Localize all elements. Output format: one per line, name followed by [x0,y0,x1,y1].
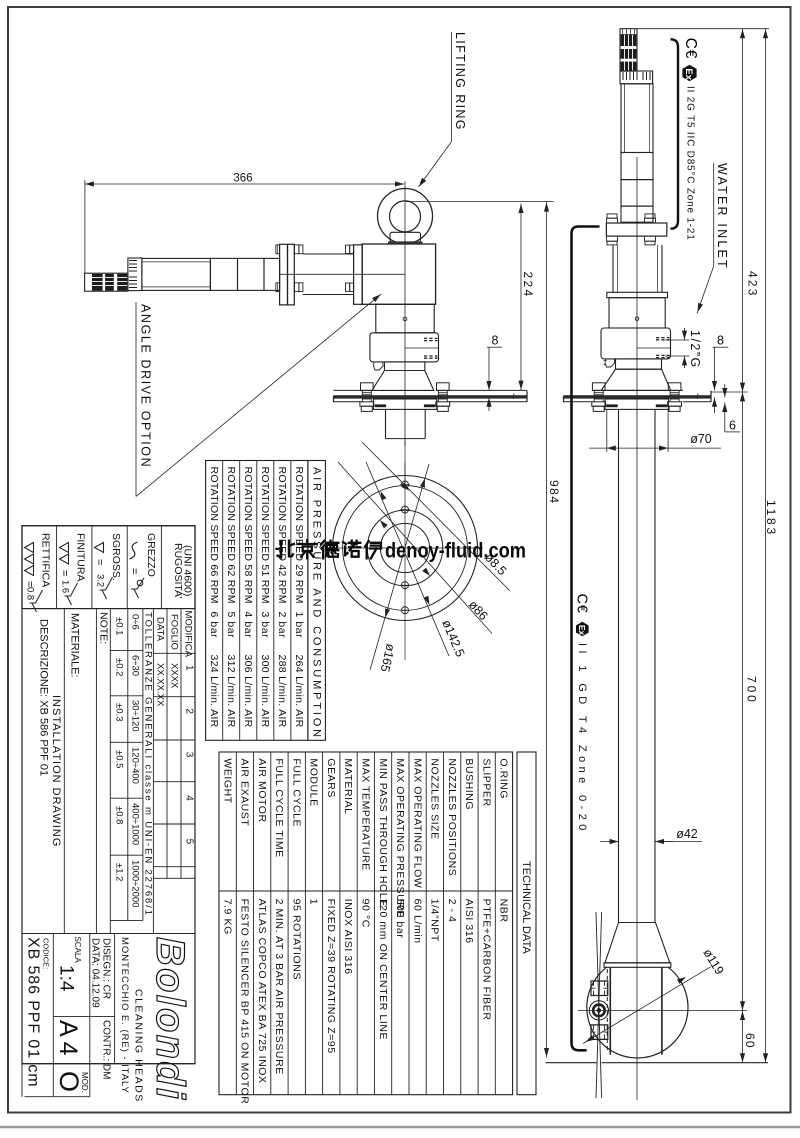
svg-text:XX.XX.XX: XX.XX.XX [155,663,166,707]
bracket atex upper [671,39,679,228]
angle drive tube to head [303,253,354,255]
technical data table grid [219,752,513,1095]
svg-text:AISI 316: AISI 316 [463,899,475,944]
ball horizontal centerline [578,1010,747,1012]
svg-text:ø119: ø119 [700,946,726,977]
svg-text:O: O [54,1071,84,1092]
svg-text:ATLAS COPCO ATEX BA 725 INOX: ATLAS COPCO ATEX BA 725 INOX [256,899,268,1084]
svg-text:±0.2: ±0.2 [114,658,125,676]
svg-text:6÷30: 6÷30 [130,655,141,676]
ball hub walls [609,967,611,1054]
tube coupling [621,180,653,207]
svg-text:FULL CYCLE TIME: FULL CYCLE TIME [273,758,285,857]
dim 8 right [713,346,729,348]
svg-text:ANGLE DRIVE OPTION: ANGLE DRIVE OPTION [139,304,153,468]
angle drive motor body [142,258,211,290]
svg-text:1/2”G: 1/2”G [688,330,702,369]
svg-text:Ex: Ex [577,625,587,636]
svg-text:423: 423 [745,271,759,298]
svg-text:INSTALLATION DRAWING: INSTALLATION DRAWING [50,695,62,847]
svg-text:288 L/min. AIR: 288 L/min. AIR [276,655,288,728]
svg-text:30÷120: 30÷120 [130,700,141,732]
svg-text:1/4”NPT: 1/4”NPT [429,899,441,942]
svg-text:ROTATION SPEED 66 RPM: ROTATION SPEED 66 RPM [208,467,220,604]
tube upper [621,206,653,222]
svg-text:FULL CYCLE: FULL CYCLE [290,758,302,827]
svg-text:SLIPPER: SLIPPER [480,758,492,806]
water inlet pipe [572,227,600,1051]
svg-text:C€: C€ [574,594,590,614]
head gear housing [370,333,439,362]
watermark text [277,541,294,558]
ring neck [390,232,421,242]
svg-text:GREZZO: GREZZO [145,533,157,577]
motor top slotted cap [620,71,653,84]
svg-text:MODULE: MODULE [308,758,320,806]
svg-text:FESTO SILENCER BP 415 ON MOTOR: FESTO SILENCER BP 415 ON MOTOR [239,899,251,1105]
svg-text:1 bar: 1 bar [293,612,305,639]
svg-text:1183: 1183 [764,500,778,537]
svg-text:5 bar: 5 bar [225,612,237,639]
extension from lifting ring to 984 [406,201,554,203]
flange view centerlines [329,547,483,549]
dim o42 [600,841,619,843]
svg-text:4: 4 [183,795,194,801]
lifting ring [378,189,433,244]
svg-text:366: 366 [233,173,252,185]
svg-text:1.6: 1.6 [60,580,71,593]
down tube (O42) [618,409,620,922]
neck [616,359,662,369]
svg-text:±0.1: ±0.1 [114,617,125,635]
dim o119 leader [583,967,711,1044]
nozzle hub cone [605,923,670,963]
svg-text:C€: C€ [682,38,699,59]
svg-text:60: 60 [743,1033,757,1049]
svg-text:264 L/min. AIR: 264 L/min. AIR [293,655,305,728]
svg-text:90 °C: 90 °C [360,899,372,928]
flange bolt holes [402,481,409,488]
svg-text:MODIFICA: MODIFICA [183,611,194,658]
Ex hexagon upper [682,65,696,81]
svg-text:Bolondi: Bolondi [148,937,192,1101]
spray ball [587,967,688,1058]
svg-text:±0.3: ±0.3 [114,703,125,721]
svg-text:2 MIN. AT 3 BAR AIR PRESSURE: 2 MIN. AT 3 BAR AIR PRESSURE [273,899,285,1075]
svg-text:1:4: 1:4 [56,965,77,992]
head adapter plate [354,245,363,304]
lifting ring label [451,32,453,142]
svg-text:DISEGN.: CR: DISEGN.: CR [101,938,112,999]
CE mark lower [574,594,590,614]
adapter bolts [346,245,350,253]
title columns [63,609,65,934]
head collar [373,399,436,409]
svg-text:(UNI 4600): (UNI 4600) [181,545,193,596]
air motor body [621,84,653,153]
flange view outer circle o165 [333,476,478,621]
svg-text:denoy-fluid.com: denoy-fluid.com [385,539,526,563]
gasket dashes on collar [606,404,618,407]
svg-text:2 bar: 2 bar [276,612,288,639]
clamp collar [605,399,668,409]
angle drive slotted cap [128,258,142,291]
svg-text:XB 586 PPF 01 cm: XB 586 PPF 01 cm [25,937,42,1087]
head vertical centerline [404,181,406,446]
svg-text:6: 6 [729,419,736,433]
svg-text:FINITURA: FINITURA [74,533,86,581]
dim 6 right [724,384,726,397]
dim 366 [84,180,86,273]
svg-text:MAX TEMPERATURE: MAX TEMPERATURE [360,758,372,870]
jet axis lines [596,912,602,1098]
svg-text:FOGLIO: FOGLIO [169,614,180,650]
extension line plate right [711,391,748,393]
svg-text:6 bar: 6 bar [208,612,220,639]
angle drive option label [135,302,137,496]
svg-text:700: 700 [744,676,758,705]
gear housing block with water port [601,328,671,359]
svg-text:ø142.5: ø142.5 [439,618,467,659]
logo block columns [52,934,54,1097]
svg-text:306 L/min. AIR: 306 L/min. AIR [242,655,254,728]
clamp bolts at plate [592,383,605,391]
svg-text:NOZZLES SIZE: NOZZLES SIZE [429,758,441,839]
svg-text:1000÷2000: 1000÷2000 [130,860,141,907]
head gearbox [376,304,434,333]
modifica table [166,609,168,879]
svg-text:0.8: 0.8 [25,587,36,600]
head grease nipple [374,362,384,370]
bearing housing [609,298,665,328]
angle drive horizontal centerline [280,273,405,275]
head bell [372,371,434,391]
main assembly vertical centerline [636,157,638,1100]
scan edge line bottom [0,1126,800,1129]
svg-text:A4: A4 [54,1020,82,1061]
bevel head block [362,244,435,304]
svg-text:120÷400: 120÷400 [130,747,141,784]
flange studs [607,214,617,218]
svg-text:ø42: ø42 [676,827,698,841]
leader o86 [338,462,492,634]
svg-text:312 L/min. AIR: 312 L/min. AIR [225,655,237,728]
nozzle top-left [591,981,608,996]
svg-text:5: 5 [183,839,194,845]
svg-text:ROTATION SPEED 58 RPM: ROTATION SPEED 58 RPM [242,467,254,604]
svg-text:224: 224 [521,272,535,299]
svg-text:INOX AISI 316: INOX AISI 316 [342,899,354,975]
svg-text:WATER INLET: WATER INLET [715,163,729,270]
svg-text:NBR: NBR [498,899,510,923]
grease nipple left [605,359,615,367]
svg-text:XXXX: XXXX [169,663,180,689]
svg-text:ø70: ø70 [690,432,712,446]
Ex hexagon lower [576,622,589,637]
title block outer [22,526,195,1064]
svg-text:±0.5: ±0.5 [114,750,125,768]
leader o165 [370,464,429,670]
ground line [546,1062,597,1064]
svg-text:1: 1 [183,665,194,671]
svg-text:ø165: ø165 [378,642,398,673]
svg-text:LIFTING RING: LIFTING RING [453,32,467,131]
svg-text:ø86: ø86 [466,598,491,623]
svg-text:95 ROTATIONS: 95 ROTATIONS [290,899,302,981]
leader o142.5 [366,462,449,656]
flange (upper) [606,223,666,236]
svg-text:CODICE:: CODICE: [42,938,51,969]
svg-text:ROTATION SPEED 29 RPM: ROTATION SPEED 29 RPM [293,467,305,604]
svg-text:2 - 4: 2 - 4 [446,899,458,923]
svg-text:=: = [59,570,71,576]
svg-text:±0.8: ±0.8 [114,806,125,824]
mounting plate (section) [592,389,683,391]
leader o8.5 [362,442,510,591]
svg-text:2: 2 [183,708,194,714]
svg-text:984: 984 [547,480,561,505]
dim chain line 423/700/60 [742,29,744,1063]
svg-text:NOTE:: NOTE: [97,612,109,644]
svg-text:WEIGHT: WEIGHT [221,758,233,803]
head mounting plate [334,389,361,391]
svg-text:324 L/min. AIR: 324 L/min. AIR [208,655,220,728]
svg-text:DESCRIZIONE: XB 586 PPF 01: DESCRIZIONE: XB 586 PPF 01 [38,619,50,776]
extension line motor top [637,28,769,30]
svg-text:MIN PASS THROUGH HOLE: MIN PASS THROUGH HOLE [377,758,389,906]
svg-text:DATA: DATA [155,617,166,642]
svg-text:II 2G T5 IIC D85°C Zone 1-21: II 2G T5 IIC D85°C Zone 1-21 [684,86,695,241]
svg-text:O.RING: O.RING [498,758,510,799]
angle drive silencer [85,273,128,291]
svg-text:8: 8 [492,334,499,348]
svg-text:PTFE+CARBON FIBER: PTFE+CARBON FIBER [480,899,492,1021]
svg-text:RETTIFICA: RETTIFICA [39,533,51,587]
angle drive motor sections [210,258,237,290]
dim 984 [546,202,548,1058]
roughness table [22,526,195,609]
svg-text:120 mm ON CENTER LINE: 120 mm ON CENTER LINE [377,899,389,1041]
CE mark upper [682,38,699,59]
svg-text:CLEANING HEADS: CLEANING HEADS [132,989,144,1103]
svg-text:BUSHING: BUSHING [463,758,475,810]
svg-text:7.9 KG: 7.9 KG [221,899,233,935]
centerline to flange view [404,463,406,483]
svg-text:ROTATION SPEED 42 RPM: ROTATION SPEED 42 RPM [276,467,288,604]
head gasket dashes [375,404,387,407]
svg-text:500 bar: 500 bar [394,899,406,939]
dim 1/2 G [665,339,690,341]
svg-text:CONTR.: DM: CONTR.: DM [101,1020,112,1079]
tube below flange [612,245,614,292]
flange circle o86 [367,510,442,585]
svg-text:MATERIALE:: MATERIALE: [69,613,81,678]
svg-text:3 bar: 3 bar [259,612,271,639]
svg-text:3.2: 3.2 [95,574,106,587]
svg-text:GEARS: GEARS [325,758,337,798]
svg-text:DATA: 04.12.09: DATA: 04.12.09 [89,938,100,1008]
tolerance table [127,609,129,921]
bell housing [601,369,671,390]
angle drive flange bolts [276,245,280,254]
svg-text:=: = [94,559,106,565]
svg-text:60 L/min: 60 L/min [411,899,423,944]
svg-text:3: 3 [183,752,194,758]
svg-text:MONTECCHIO E. (RE) - ITALY: MONTECCHIO E. (RE) - ITALY [119,937,130,1094]
svg-text:TECHNICAL DATA: TECHNICAL DATA [520,861,532,954]
angle drive flange plates [280,244,288,305]
svg-text:4 bar: 4 bar [242,612,254,639]
svg-text:AIR MOTOR: AIR MOTOR [256,758,268,822]
dim o70 [606,410,608,452]
air motor silencer (hatched) [620,29,637,71]
water inlet label [713,163,715,266]
flange bolt circle o142.5 [343,486,468,611]
svg-text:MATERIAL: MATERIAL [342,758,354,814]
svg-text:8: 8 [717,334,724,348]
svg-text:MAX OPERATING PRESSURE: MAX OPERATING PRESSURE [394,758,406,918]
head clamp bolts [361,383,374,391]
svg-text:MAX OPERATING FLOW: MAX OPERATING FLOW [411,758,423,888]
nozzle (facing) bullseye [589,1001,608,1020]
svg-text:SGROSS.: SGROSS. [110,533,122,581]
nozzle bottom-left [591,1025,608,1040]
svg-text:300 L/min. AIR: 300 L/min. AIR [259,655,271,728]
svg-text:TOLLERANZE GENERALI classe m U: TOLLERANZE GENERALI classe m UNI-EN 2276… [143,612,154,917]
dim 8 left [487,346,502,348]
air pressure table grid [206,461,308,741]
svg-text:Ex: Ex [683,68,694,80]
svg-text:ROTATION SPEED 51 RPM: ROTATION SPEED 51 RPM [259,467,271,604]
gearbox top band [607,292,668,297]
head neck [385,362,425,371]
svg-text:FIXED Z=39 ROTATING Z=95: FIXED Z=39 ROTATING Z=95 [325,899,337,1054]
head tailpipe [385,409,387,438]
flange hub circle [380,523,429,572]
svg-text:AIR EXAUST: AIR EXAUST [239,758,251,826]
dim 1183 [765,29,767,1063]
svg-text:II 1 GD T4 Zone 0-20: II 1 GD T4 Zone 0-20 [576,643,588,835]
dim 224 [520,204,522,391]
svg-text:=: = [128,568,140,574]
svg-text:1: 1 [308,899,320,905]
svg-text:400÷1000: 400÷1000 [130,803,141,845]
svg-text:SCALA: SCALA [73,937,82,964]
svg-text:ROTATION SPEED 62 RPM: ROTATION SPEED 62 RPM [225,467,237,604]
svg-text:AIR PRESSURE AND CONSUMPTION: AIR PRESSURE AND CONSUMPTION [311,467,323,740]
motor lower section [621,153,653,180]
svg-text:0÷6: 0÷6 [130,614,141,630]
grease dot [635,317,639,321]
svg-text:NOZZLES POSITIONS: NOZZLES POSITIONS [446,758,458,876]
svg-text:±1.2: ±1.2 [114,863,125,881]
